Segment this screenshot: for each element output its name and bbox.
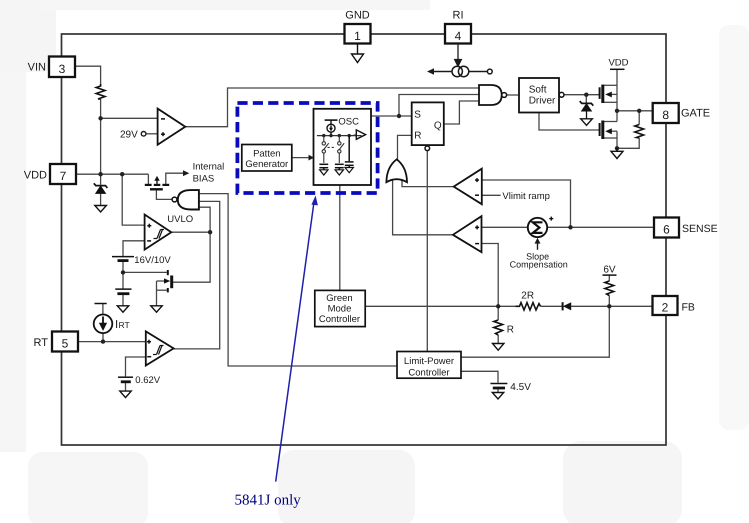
svg-text:VDD: VDD	[608, 58, 628, 69]
ground symbol output stage	[611, 148, 623, 158]
svg-text:Controller: Controller	[319, 314, 360, 325]
pin 1 (GND)	[345, 10, 371, 44]
wire pin 5 to 0.62V comparator plus	[77, 341, 146, 343]
wire OR gate input 1 from comparator A	[402, 180, 454, 187]
VDD terminal	[608, 58, 628, 70]
zener diode D2	[580, 101, 594, 119]
battery C2 lower	[115, 289, 131, 294]
ground symbol under pin 1	[352, 44, 364, 63]
svg-text:R: R	[507, 325, 514, 336]
wire Limit-Power Controller to 4.5V	[461, 371, 498, 382]
wire NMOS Q3 bulk	[157, 280, 165, 282]
svg-text:7: 7	[60, 169, 67, 183]
wire battery 2 to ground	[122, 294, 124, 305]
svg-text:Compensation: Compensation	[510, 260, 568, 270]
IC outline box	[62, 34, 667, 445]
svg-text:RT: RT	[119, 320, 130, 330]
svg-text:Patten: Patten	[253, 149, 280, 160]
wire 0.62V comparator minus to battery	[126, 357, 146, 376]
node pin5	[101, 339, 105, 343]
wire node to NMOS Q3 drain	[172, 232, 210, 282]
OSC switch SW1	[322, 136, 329, 163]
wire 4.5V to ground	[497, 388, 499, 393]
wire 6V resistor to FB node	[608, 296, 610, 307]
svg-text:VDD: VDD	[24, 170, 47, 182]
29V reference terminal	[120, 130, 146, 141]
wire PMOS stubs	[603, 84, 617, 86]
wire UVLO output to node	[171, 231, 210, 233]
wire zener to ground	[100, 194, 102, 206]
node FB	[607, 304, 611, 308]
OSC rail	[317, 135, 362, 137]
wire NMOS source to ground node	[616, 131, 618, 148]
ground under C2	[335, 170, 343, 175]
wire zener VDD tap	[100, 174, 102, 185]
slope compensation arrow	[510, 238, 568, 270]
ground symbol under 4.5V	[492, 393, 503, 400]
svg-text:6V: 6V	[603, 264, 616, 275]
wire OSC output to latch S input	[371, 115, 412, 117]
Soft Driver block	[519, 78, 564, 113]
wire latch R input	[398, 135, 412, 159]
pin 5 (RT)	[34, 332, 78, 352]
svg-text:4: 4	[455, 29, 462, 43]
Patten Generator block	[242, 145, 292, 172]
pin 6 (SENSE)	[654, 218, 718, 238]
wire NMOS Q3 source	[157, 289, 167, 291]
NAND gate U2	[479, 85, 507, 105]
wire gate node to pin 8	[617, 110, 653, 112]
pin 8 (GATE)	[653, 103, 710, 123]
wire NAND U3 input middle to 0.62V comparator output	[174, 201, 220, 349]
comparator B (current sense)	[453, 216, 482, 252]
wire pin 4 to current source with arrow	[455, 44, 462, 67]
svg-text:29V: 29V	[120, 130, 138, 141]
comparator U1 (29V VIN OVP)	[158, 109, 186, 145]
switch link dashes	[328, 146, 337, 148]
battery 16V/10V	[112, 257, 134, 261]
svg-text:Mode: Mode	[328, 303, 352, 314]
svg-text:Vlimit ramp: Vlimit ramp	[502, 191, 550, 202]
wire comparator B plus input to summer	[482, 226, 529, 228]
ground symbol under R	[493, 344, 504, 351]
comparator A (Vlimit)	[454, 169, 482, 205]
wire VDD pin rail	[76, 173, 148, 175]
svg-text:Driver: Driver	[529, 95, 556, 106]
wire bias PMOS stub 3 to Internal BIAS arrow	[166, 173, 183, 184]
svg-text:VIN: VIN	[28, 62, 46, 74]
OSC capacitor C1	[319, 164, 328, 170]
wire Soft Driver low output to NMOS gate	[539, 112, 600, 130]
OSC capacitor C3	[345, 136, 354, 168]
wire S-node to NAND U2 input 2	[399, 95, 479, 117]
pin 3 (VIN)	[28, 57, 75, 78]
wire divider node to resistor R	[497, 306, 499, 320]
wire comparator A plus input to sense node	[482, 180, 571, 227]
svg-text:RI: RI	[453, 10, 464, 22]
wire FB node down to Limit-Power Controller	[461, 306, 609, 357]
blue callout arrow to dashed box	[276, 196, 318, 482]
svg-text:OSC: OSC	[338, 117, 359, 128]
node UVLO output	[208, 230, 212, 234]
wire gate node to NMOS Q3 gate	[123, 271, 167, 273]
node gate output	[615, 109, 619, 113]
svg-text:UVLO: UVLO	[167, 214, 193, 225]
zener diode D1 at VDD	[94, 183, 108, 193]
wire 6V bar to resistor	[608, 275, 610, 281]
current source I-RI (two circles)	[427, 66, 492, 76]
svg-text:Q: Q	[434, 120, 442, 131]
wire 29V comparator output to NAND U2 input 1	[185, 88, 479, 127]
wire node to NMOS drain	[616, 111, 618, 122]
transistor Q3 hysteresis NMOS	[164, 270, 172, 292]
svg-text:Soft: Soft	[529, 84, 547, 95]
svg-text:6: 6	[663, 223, 670, 237]
svg-text:0.62V: 0.62V	[135, 375, 160, 386]
svg-text:Generator: Generator	[245, 159, 288, 170]
wire NAND U2 output to Soft Driver	[506, 94, 519, 96]
wire comparator B minus input to feedback divider	[482, 244, 499, 307]
OR gate U6 (pointing up)	[386, 159, 407, 182]
node VDD rail 1	[98, 172, 102, 176]
svg-text:BIAS: BIAS	[193, 173, 215, 184]
wire Patten Generator to OSC	[292, 157, 310, 159]
wire OR gate input 2 from comparator B	[393, 180, 453, 235]
Green Mode Controller block	[315, 290, 365, 326]
svg-text:5841J only: 5841J only	[235, 493, 302, 509]
OSC buffer	[356, 130, 365, 139]
wire bias PMOS stub 1	[147, 174, 149, 184]
wire 2R to divider node	[498, 305, 515, 307]
svg-text:2: 2	[662, 301, 669, 315]
wire OSC bottom to Green Mode Controller	[339, 185, 341, 290]
OSC capacitor C2	[335, 164, 344, 170]
wire Limit-Power Controller left input	[199, 194, 397, 366]
wire IRT to pin5 node	[102, 333, 104, 342]
wire zener tap	[585, 95, 587, 104]
wire 16V battery to gate node	[122, 261, 124, 288]
wire NAND U3 output to bias PMOS gate	[156, 190, 172, 199]
wire latch bottom to Limit-Power Controller	[426, 151, 428, 352]
node sense branch	[568, 225, 572, 229]
comparator 0.62V (RT)	[146, 331, 174, 365]
wire NAND U3 input bottom to UVLO output	[199, 207, 211, 232]
Internal BIAS arrow and label	[183, 161, 224, 184]
node gate output 2	[637, 109, 641, 113]
ground symbol under D2	[581, 119, 593, 126]
svg-text:GND: GND	[345, 10, 370, 22]
resistor 6V pullup	[605, 281, 614, 296]
svg-text:1: 1	[354, 29, 361, 43]
wire Soft Driver output to PMOS gate	[564, 94, 600, 96]
node VIN divider	[98, 116, 102, 120]
svg-text:2R: 2R	[521, 291, 534, 302]
wire node to 29V comparator minus input	[101, 117, 158, 119]
SR latch U5	[412, 102, 444, 150]
wire 0.62V battery to ground	[125, 382, 127, 391]
resistor gate pulldown	[635, 125, 644, 139]
node battery junction	[121, 270, 125, 274]
ground under C3	[345, 168, 353, 173]
wire FB node to pin 2	[609, 305, 652, 307]
wire summer to pin 6 SENSE	[546, 226, 655, 228]
node zener tap	[584, 93, 588, 97]
svg-text:16V/10V: 16V/10V	[134, 255, 171, 266]
svg-text:FB: FB	[682, 302, 695, 314]
wire comparator A minus input to Vlimit ramp	[482, 194, 501, 196]
wire UVLO minus input to 16V battery	[123, 241, 145, 256]
node VDD rail 2	[120, 172, 124, 176]
wire R resistor to ground	[497, 335, 499, 344]
pin 4 (RI)	[445, 10, 471, 44]
svg-text:Internal: Internal	[193, 161, 225, 172]
wire latch Q output to NAND U2 input 3	[444, 101, 479, 124]
battery 0.62V	[118, 377, 133, 382]
wire pulldown resistor to ground node	[617, 138, 639, 148]
6V terminal	[603, 264, 617, 275]
ground symbol under battery chain	[117, 306, 128, 312]
arrow Patten Generator to OSC	[309, 155, 315, 161]
battery 4.5V	[490, 384, 507, 389]
transistor Q4 output PMOS	[600, 85, 612, 103]
resistor on VIN	[96, 84, 105, 99]
node ground junction	[615, 146, 619, 150]
pin 2 (FB)	[653, 296, 695, 315]
wire 29V source to comparator plus input	[146, 133, 158, 135]
ground symbol under 0.62V	[120, 391, 131, 398]
svg-text:R: R	[414, 131, 421, 142]
Limit-Power Controller block	[397, 352, 461, 379]
wire divider node to Green Mode Controller	[365, 305, 498, 307]
wire IRT bar stem	[102, 304, 104, 315]
svg-text:8: 8	[662, 108, 669, 122]
node divider	[496, 304, 500, 308]
current source IRT	[94, 304, 130, 334]
svg-text:RT: RT	[34, 337, 49, 349]
resistor R	[494, 320, 514, 336]
ground symbol under Q3	[151, 306, 162, 312]
ground symbol under zener D1	[95, 206, 107, 213]
wire node to pulldown resistor	[638, 111, 640, 125]
svg-text:3: 3	[59, 62, 66, 76]
OSC block U4	[314, 109, 372, 185]
svg-text:S: S	[414, 110, 421, 121]
OSC current source	[325, 120, 338, 136]
wire diode to 2R resistor	[541, 305, 563, 307]
diode D3	[563, 302, 572, 310]
wire VDD bar to PMOS drain	[616, 69, 618, 111]
comparator UVLO	[145, 214, 194, 250]
transistor Q5 output NMOS	[600, 121, 612, 140]
OSC switch SW2	[338, 136, 345, 163]
wire Q3 source to ground	[156, 281, 158, 306]
svg-text:Limit-Power: Limit-Power	[404, 356, 454, 367]
wire resistor to VDD rail	[100, 99, 102, 174]
NAND gate U3 (pointing left)	[172, 190, 199, 209]
wire FB node to diode	[571, 305, 609, 307]
transistor Q1 bias PMOS	[145, 176, 169, 189]
ground under C1	[320, 170, 328, 175]
wire NMOS stubs	[603, 121, 617, 123]
svg-text:GATE: GATE	[681, 108, 710, 120]
wire VDD node to UVLO plus input	[122, 174, 144, 225]
svg-text:Controller: Controller	[408, 367, 449, 378]
dashed 5841J box	[237, 103, 377, 193]
pin 7 (VDD)	[24, 164, 76, 184]
svg-text:4.5V: 4.5V	[510, 382, 531, 393]
svg-text:SENSE: SENSE	[682, 223, 718, 235]
wire pin3 to VIN resistor	[75, 66, 101, 84]
summer (slope compensation)	[528, 217, 554, 238]
resistor 2R	[516, 291, 541, 311]
node S input	[397, 114, 401, 118]
svg-text:5: 5	[62, 337, 69, 351]
